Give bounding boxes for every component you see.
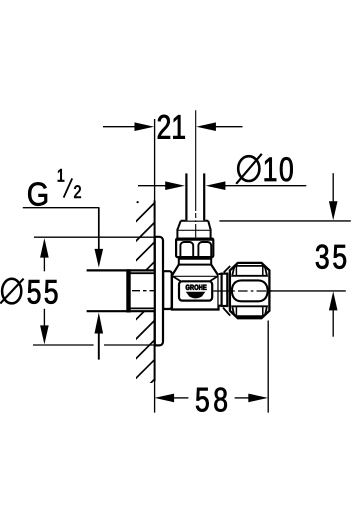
- Ø symbol of Ø55: [2, 279, 21, 304]
- nut left facet: [180, 242, 193, 257]
- wall hatching: [135, 201, 155, 399]
- dimension 35: [219, 173, 350, 337]
- nut center facet barrel: [232, 280, 268, 301]
- top funnel neck: [172, 265, 219, 276]
- G1/2 leader underline: [23, 207, 100, 209]
- left connector between plate and body: [163, 271, 172, 309]
- top extension line: [219, 220, 350, 222]
- nut right facet: [198, 242, 211, 257]
- G1/2 threaded inlet pipe: [87, 270, 155, 311]
- compression ring: [222, 274, 228, 306]
- escutcheon plate (Ø55): [155, 237, 163, 346]
- dimension Ø55: [0, 237, 155, 345]
- valve body: [172, 276, 219, 310]
- ring chamfer top: [224, 266, 230, 272]
- G 1/2 label: [23, 169, 103, 359]
- right outlet hex nut: [230, 263, 270, 318]
- GROHE wordmark: [186, 285, 207, 290]
- body shoulder line right: [209, 276, 218, 282]
- right outlet neck: [219, 274, 222, 306]
- thread end collar: [126, 269, 130, 312]
- GROHE wave logo: [186, 292, 206, 299]
- Ø symbol of Ø10: [238, 156, 259, 181]
- inlet pipe centerline: [132, 290, 156, 292]
- nut bottom chamfer band: [232, 306, 267, 316]
- right extension line: [267, 321, 269, 413]
- top extension line: [34, 236, 155, 238]
- nut top chamfer band: [232, 266, 267, 276]
- ring chamfer bottom: [223, 308, 230, 316]
- body shoulder line left: [173, 276, 182, 282]
- G1/2 up arrow under pipe: [95, 312, 104, 333]
- pipe inner shank lines: [131, 272, 155, 274]
- G1/2 leader vertical with down arrow: [98, 208, 100, 250]
- pipe centerline / 21 right extension: [195, 110, 197, 237]
- wall surface line: [154, 201, 156, 382]
- centerline extension right: [270, 290, 345, 292]
- extension line 21 left / 58 left (wall line extended): [154, 119, 156, 201]
- dimension 58: [154, 321, 268, 413]
- vertical outlet hex nut: [176, 239, 213, 258]
- olive top taper: [177, 221, 210, 230]
- bottom extension line: [33, 344, 94, 346]
- outlet pipe Ø10: [185, 173, 205, 220]
- GROHE label plate: [179, 281, 212, 300]
- down arrow: [40, 325, 49, 344]
- nut centerline dashes: [213, 290, 272, 292]
- dimension Ø10: [138, 154, 306, 190]
- olive ring band: [177, 230, 210, 239]
- top flange: [179, 257, 211, 265]
- dimension 21: [103, 115, 243, 139]
- up arrow: [40, 238, 49, 258]
